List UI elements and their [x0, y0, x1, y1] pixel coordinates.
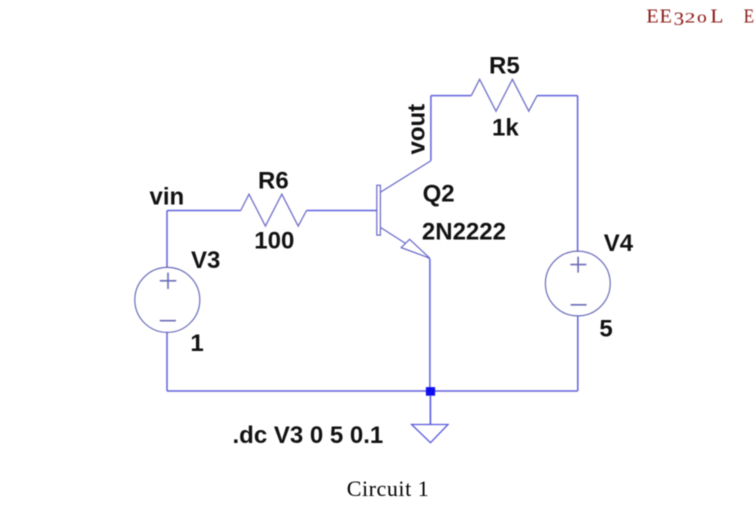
svg-text:V4: V4 — [604, 230, 634, 257]
svg-text:Q2: Q2 — [423, 180, 455, 207]
V3 plus sign — [160, 273, 177, 289]
wire vin down to V3 — [166, 211, 168, 268]
svg-text:Circuit 1: Circuit 1 — [347, 476, 430, 501]
svg-text:EE: EE — [646, 5, 672, 27]
wire collector vertical — [430, 96, 432, 161]
svg-text:V3: V3 — [191, 247, 220, 274]
voltage source V4 circle — [545, 251, 610, 316]
svg-text:o: o — [697, 7, 707, 26]
svg-text:R5: R5 — [489, 53, 520, 80]
transistor Q2 base bar — [377, 185, 381, 235]
resistor R6 — [241, 194, 307, 226]
svg-text:L: L — [710, 5, 723, 27]
svg-text:vout: vout — [404, 104, 431, 155]
wire V4 bottom down — [577, 316, 579, 391]
V3 minus sign — [160, 320, 176, 322]
svg-text:2N2222: 2N2222 — [422, 219, 506, 246]
svg-text:1: 1 — [190, 330, 203, 357]
svg-text:5: 5 — [599, 316, 612, 343]
svg-text:1k: 1k — [492, 115, 519, 142]
svg-text:.dc V3 0 5 0.1: .dc V3 0 5 0.1 — [233, 422, 384, 449]
voltage source V3 circle — [135, 267, 200, 332]
wire top left of R5 — [431, 95, 471, 97]
V4 minus sign — [571, 304, 587, 306]
header EE 320L — [646, 5, 723, 30]
wire top right of R5 — [537, 95, 578, 97]
wire V3 bottom down — [166, 332, 168, 391]
svg-text:3: 3 — [674, 9, 685, 30]
ground symbol — [412, 425, 448, 443]
svg-text:100: 100 — [254, 228, 294, 255]
transistor Q2 emitter lead — [380, 227, 429, 259]
svg-text:vin: vin — [150, 184, 185, 211]
svg-text:R6: R6 — [258, 167, 289, 194]
wire bottom horizontal — [167, 390, 578, 392]
V4 plus sign — [570, 257, 586, 273]
wire junction to ground — [429, 396, 431, 425]
transistor Q2 collector lead — [380, 161, 431, 193]
wire vin horizontal to R6 — [167, 210, 241, 212]
transistor Q2 emitter arrow — [401, 239, 430, 258]
junction node square — [426, 387, 435, 396]
wire R6 to base — [307, 210, 377, 212]
resistor R5 — [471, 79, 537, 111]
svg-text:2: 2 — [685, 10, 696, 26]
svg-text:E: E — [744, 5, 754, 27]
wire right vertical to V4 — [577, 96, 579, 252]
wire emitter vertical down to junction — [429, 259, 431, 391]
